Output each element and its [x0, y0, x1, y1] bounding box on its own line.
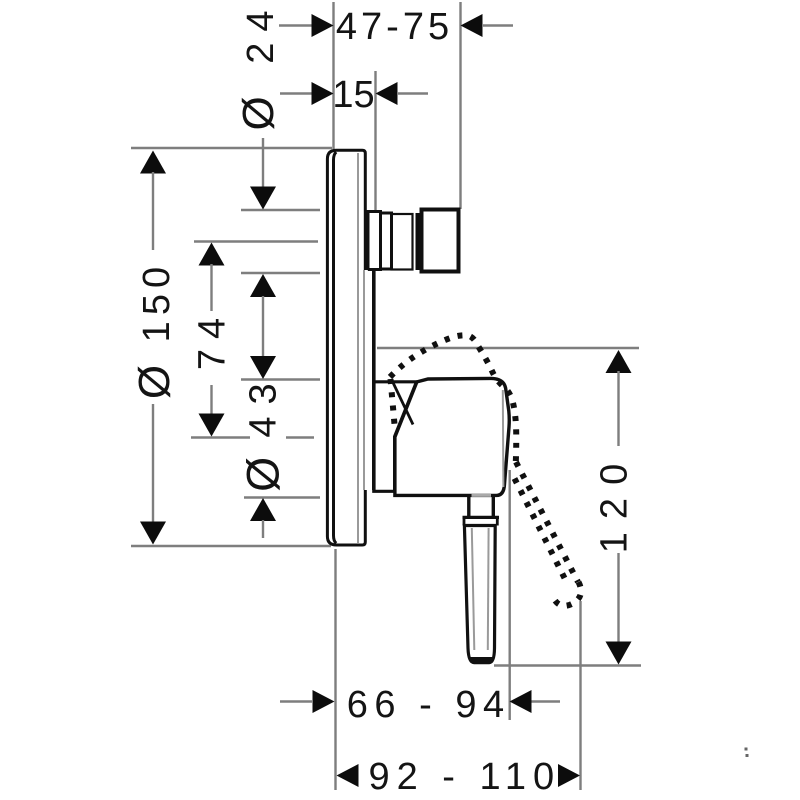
extension line: wall plane vertical	[374, 71, 376, 210]
svg-text:15: 15	[332, 74, 374, 116]
dim 47-75 left arrow	[312, 14, 334, 37]
escutcheon right edge gray segment	[363, 270, 365, 490]
extension line: handle axis left	[191, 436, 250, 438]
dim 15 left arrow	[312, 82, 334, 105]
extension line: lever max height	[377, 347, 639, 349]
extension line: escutcheon bottom	[131, 545, 331, 547]
extension line: connector top	[241, 209, 320, 211]
extension line: connector axis	[194, 240, 318, 242]
escutcheon plate	[327, 150, 365, 545]
dim 92-110 right arrow	[558, 764, 580, 787]
connector pipe	[392, 214, 413, 270]
dim 120 upper line	[617, 371, 619, 446]
dim D150 down arrow	[140, 522, 166, 545]
speck	[745, 748, 748, 751]
dim 120 up arrow	[606, 350, 632, 373]
dashed handle upper edge	[516, 462, 578, 582]
svg-text:74: 74	[191, 308, 233, 370]
dim 15 right arrow	[376, 82, 398, 105]
dim 66-94 left tail	[280, 700, 312, 702]
dim 15 left tail	[280, 92, 312, 94]
dim D150 upper line	[152, 172, 154, 250]
extension line: handle extent vertical	[509, 470, 511, 720]
valve sleeve line	[372, 270, 376, 490]
extension line: escutcheon top	[131, 147, 332, 149]
connector ring A	[368, 212, 381, 270]
dim 47-75 right arrow	[461, 14, 483, 37]
dim shared tail D24-D43	[262, 296, 264, 358]
dim 66-94 right arrow	[510, 690, 532, 713]
handle neck left	[467, 497, 470, 517]
handle body	[395, 378, 509, 495]
escutcheon right edge mask	[363, 270, 368, 490]
svg-text:43: 43	[243, 371, 285, 437]
dim 74 down arrow	[199, 414, 225, 437]
extension line: connector bottom	[241, 272, 320, 274]
dim 74 upper line	[210, 264, 212, 311]
handle flange top	[463, 516, 500, 519]
handle body inner line	[502, 390, 505, 487]
svg-text:66 - 94: 66 - 94	[347, 684, 511, 726]
neck top shading	[472, 494, 492, 497]
connector end cap	[422, 210, 459, 272]
svg-text:Ø 24: Ø 24	[234, 0, 283, 131]
connector spacer band	[416, 213, 422, 270]
extension line: handle bottom	[494, 664, 641, 666]
svg-text:92 - 110: 92 - 110	[368, 756, 561, 798]
handle rod	[464, 526, 495, 663]
dim 47-75 right tail	[483, 24, 513, 26]
handle rod bottom cap	[470, 657, 493, 663]
dim D150 up arrow	[140, 151, 166, 174]
dim D43 up arrow	[250, 498, 276, 521]
dim 120 lower line	[617, 553, 619, 644]
connector ring B	[381, 213, 392, 269]
dim D43 lower tail	[262, 520, 264, 538]
handle base cone edge	[393, 382, 414, 425]
svg-text:120: 120	[594, 451, 636, 553]
escutcheon front edge line	[334, 152, 337, 543]
svg-text:Ø 150: Ø 150	[130, 261, 179, 399]
extension line: handle axis right	[286, 436, 314, 438]
dim 92-110 left arrow	[337, 764, 359, 787]
dashed lever left edge	[391, 379, 396, 430]
dim 66-94 right tail	[532, 700, 561, 702]
handle base collar	[374, 382, 417, 492]
dim D150 lower line	[152, 404, 154, 523]
dim D24 up arrow	[250, 274, 276, 297]
dim 74 up arrow	[199, 243, 225, 266]
dim 120 down arrow	[606, 642, 632, 665]
dim 74 lower line	[210, 385, 212, 414]
extension line: below escutcheon vertical	[334, 549, 336, 790]
extension line: connector end vertical	[459, 2, 461, 209]
dashed handle lower edge	[515, 479, 568, 585]
extension line: front face vertical	[332, 2, 334, 149]
rod highlight right	[487, 528, 490, 650]
dim D43 down arrow	[250, 356, 276, 379]
handle flange right	[496, 517, 499, 525]
dim 15 right tail	[398, 92, 428, 94]
dim D24 upper line	[262, 138, 264, 188]
dim 47-75 left tail	[279, 24, 312, 26]
dim D24 down arrow	[250, 187, 276, 210]
rod highlight left	[472, 528, 475, 650]
handle neck right	[492, 497, 495, 517]
dim 66-94 left arrow	[313, 690, 335, 713]
handle flange left	[463, 517, 466, 525]
svg-text:47-75: 47-75	[336, 6, 453, 48]
dashed lever arc	[390, 335, 516, 461]
extension line: sleeve bottom	[244, 496, 320, 498]
svg-text:Ø: Ø	[238, 457, 289, 492]
escutcheon inner shading line	[357, 153, 359, 543]
extension line: handle top	[241, 378, 320, 380]
extension line: dashed tip vertical	[579, 601, 581, 790]
dashed handle tip	[555, 582, 581, 606]
